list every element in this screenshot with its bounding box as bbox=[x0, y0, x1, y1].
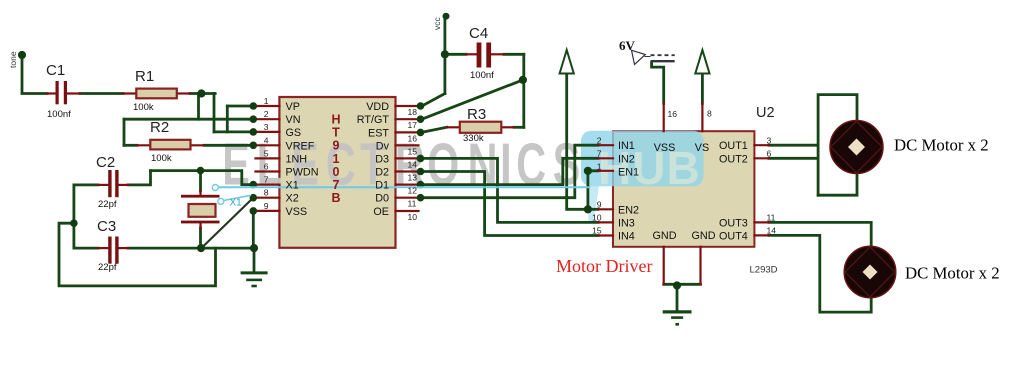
svg-text:11: 11 bbox=[408, 199, 417, 209]
svg-text:15: 15 bbox=[408, 146, 418, 156]
svg-text:10: 10 bbox=[592, 213, 602, 223]
svg-text:D2: D2 bbox=[375, 167, 389, 179]
svg-text:100k: 100k bbox=[133, 102, 154, 113]
svg-text:L293D: L293D bbox=[750, 265, 778, 276]
svg-text:1: 1 bbox=[597, 162, 602, 172]
svg-text:OUT3: OUT3 bbox=[719, 217, 748, 229]
svg-text:X1: X1 bbox=[230, 198, 243, 209]
svg-text:1: 1 bbox=[264, 96, 269, 106]
svg-text:OUT1: OUT1 bbox=[719, 140, 748, 152]
svg-text:VREF: VREF bbox=[286, 140, 315, 152]
svg-text:VDD: VDD bbox=[366, 101, 389, 113]
svg-text:VP: VP bbox=[286, 101, 300, 113]
svg-text:R2: R2 bbox=[150, 119, 169, 136]
svg-text:14: 14 bbox=[408, 159, 418, 169]
svg-text:OE: OE bbox=[373, 206, 389, 218]
svg-text:100nf: 100nf bbox=[470, 70, 494, 81]
svg-text:DC Motor x 2: DC Motor x 2 bbox=[905, 264, 1000, 283]
svg-text:9: 9 bbox=[264, 201, 269, 211]
svg-text:100nf: 100nf bbox=[47, 109, 71, 120]
svg-text:X2: X2 bbox=[286, 193, 299, 205]
svg-text:22pf: 22pf bbox=[98, 262, 117, 273]
svg-text:R3: R3 bbox=[467, 106, 486, 123]
svg-text:16: 16 bbox=[408, 133, 418, 143]
svg-text:C2: C2 bbox=[96, 154, 115, 171]
svg-text:8: 8 bbox=[264, 188, 269, 198]
svg-text:5: 5 bbox=[264, 148, 269, 158]
svg-text:Motor Driver: Motor Driver bbox=[556, 256, 652, 276]
svg-text:10: 10 bbox=[408, 212, 418, 222]
svg-text:GND: GND bbox=[653, 230, 677, 242]
svg-text:RT/GT: RT/GT bbox=[357, 114, 390, 126]
svg-text:VSS: VSS bbox=[286, 206, 308, 218]
svg-text:D1: D1 bbox=[375, 180, 389, 192]
svg-text:D3: D3 bbox=[375, 153, 389, 165]
svg-text:VS: VS bbox=[695, 142, 709, 154]
svg-text:3: 3 bbox=[264, 122, 269, 132]
svg-text:2: 2 bbox=[264, 109, 269, 119]
svg-text:C4: C4 bbox=[469, 25, 488, 42]
svg-text:OUT2: OUT2 bbox=[719, 153, 748, 165]
svg-text:GND: GND bbox=[692, 230, 716, 242]
svg-text:15: 15 bbox=[592, 226, 602, 236]
svg-text:22pf: 22pf bbox=[98, 199, 117, 210]
svg-text:IN2: IN2 bbox=[618, 153, 635, 165]
svg-text:C1: C1 bbox=[46, 62, 65, 79]
svg-text:X1: X1 bbox=[286, 180, 299, 192]
svg-text:17: 17 bbox=[408, 120, 418, 130]
svg-text:7: 7 bbox=[597, 149, 602, 159]
svg-text:T: T bbox=[332, 126, 340, 140]
svg-text:11: 11 bbox=[767, 213, 776, 223]
svg-text:GS: GS bbox=[286, 127, 302, 139]
svg-text:C3: C3 bbox=[97, 218, 116, 235]
svg-text:EN1: EN1 bbox=[618, 166, 639, 178]
svg-text:IN4: IN4 bbox=[618, 231, 635, 243]
svg-text:IN1: IN1 bbox=[618, 140, 635, 152]
svg-text:HUB: HUB bbox=[598, 142, 701, 194]
svg-text:OUT4: OUT4 bbox=[719, 231, 748, 243]
svg-text:16: 16 bbox=[668, 109, 678, 119]
svg-text:PWDN: PWDN bbox=[286, 167, 319, 179]
svg-text:12: 12 bbox=[408, 186, 418, 196]
svg-text:13: 13 bbox=[408, 173, 418, 183]
svg-text:tone: tone bbox=[8, 51, 18, 68]
svg-text:D0: D0 bbox=[375, 193, 389, 205]
svg-text:EN2: EN2 bbox=[618, 204, 639, 216]
svg-text:H: H bbox=[331, 113, 340, 127]
svg-text:7: 7 bbox=[333, 178, 340, 192]
svg-text:4: 4 bbox=[264, 135, 269, 145]
svg-text:Dv: Dv bbox=[376, 140, 390, 152]
svg-text:1: 1 bbox=[333, 152, 340, 166]
svg-text:vcc: vcc bbox=[432, 17, 442, 31]
svg-text:18: 18 bbox=[408, 107, 418, 117]
svg-text:6: 6 bbox=[264, 162, 269, 172]
svg-text:IN3: IN3 bbox=[618, 217, 635, 229]
svg-text:7: 7 bbox=[264, 175, 269, 185]
svg-text:R1: R1 bbox=[135, 68, 154, 85]
svg-text:U2: U2 bbox=[756, 105, 775, 121]
svg-text:14: 14 bbox=[767, 226, 777, 236]
svg-text:EST: EST bbox=[368, 127, 389, 139]
svg-text:330k: 330k bbox=[463, 133, 484, 144]
svg-text:9: 9 bbox=[597, 199, 602, 209]
svg-text:B: B bbox=[331, 191, 340, 205]
svg-text:9: 9 bbox=[333, 139, 340, 153]
svg-text:8: 8 bbox=[707, 109, 712, 119]
svg-text:VSS: VSS bbox=[654, 142, 676, 154]
svg-text:2: 2 bbox=[597, 135, 602, 145]
svg-text:6V: 6V bbox=[619, 38, 636, 53]
svg-text:100k: 100k bbox=[151, 153, 172, 164]
svg-text:VN: VN bbox=[286, 114, 301, 126]
svg-text:DC Motor x 2: DC Motor x 2 bbox=[894, 136, 989, 155]
svg-text:1NH: 1NH bbox=[286, 153, 308, 165]
svg-text:0: 0 bbox=[333, 165, 340, 179]
svg-text:6: 6 bbox=[767, 149, 772, 159]
svg-text:3: 3 bbox=[767, 135, 772, 145]
